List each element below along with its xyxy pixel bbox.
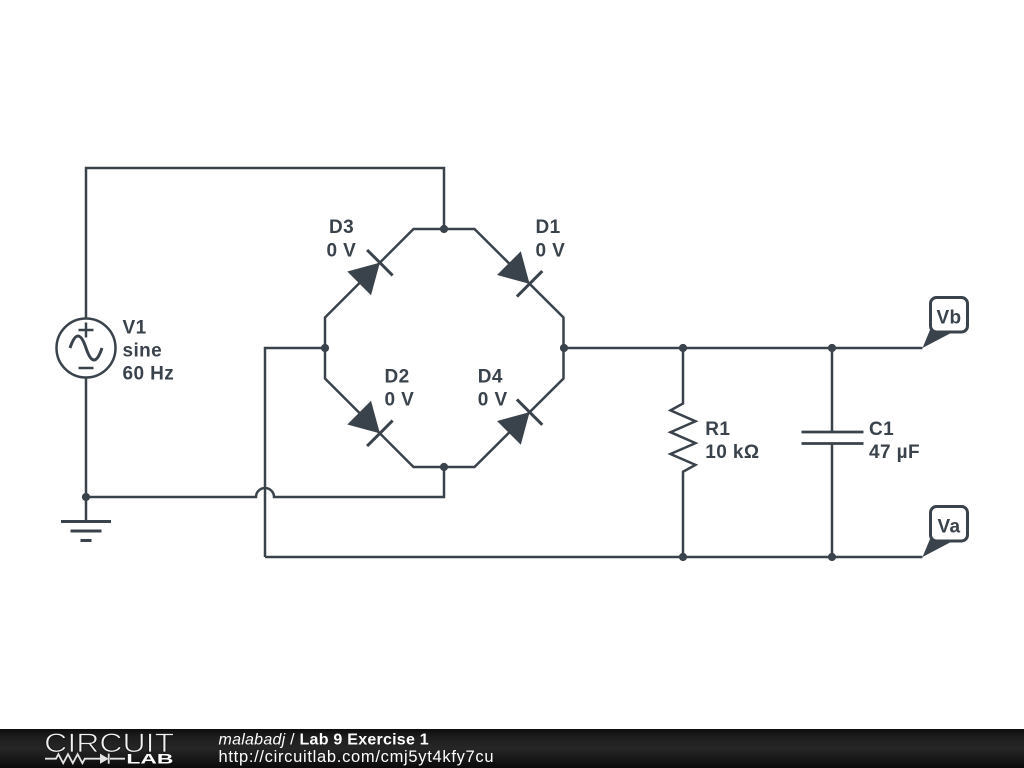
D4 label	[478, 366, 508, 410]
svg-text:0 V: 0 V	[478, 390, 508, 411]
diode D1 (top node to right node)	[444, 229, 564, 348]
node dot R1 bottom	[679, 553, 687, 561]
V1 label	[123, 318, 175, 385]
capacitor C1	[802, 348, 864, 557]
D2 label	[385, 366, 415, 410]
svg-text:0 V: 0 V	[536, 240, 566, 261]
svg-text:0 V: 0 V	[385, 390, 415, 411]
svg-text:0 V: 0 V	[327, 240, 357, 261]
node dot bridge bottom	[440, 463, 448, 471]
voltage source V1	[57, 319, 116, 378]
svg-text:D4: D4	[478, 366, 503, 387]
svg-text:R1: R1	[705, 419, 730, 440]
node dot bridge right	[560, 344, 568, 352]
svg-text:C1: C1	[869, 419, 894, 440]
ground	[61, 522, 111, 541]
svg-text:D1: D1	[536, 217, 561, 238]
svg-text:47 µF: 47 µF	[869, 442, 920, 463]
svg-text:60 Hz: 60 Hz	[123, 363, 175, 384]
CircuitLab logo	[44, 728, 174, 767]
svg-text:Vb: Vb	[936, 307, 961, 328]
D1 label	[536, 217, 566, 261]
svg-text:LAB: LAB	[126, 752, 173, 767]
node dot C1 bottom	[828, 553, 836, 561]
svg-text:D3: D3	[329, 217, 354, 238]
node dot C1 top	[828, 344, 836, 352]
svg-text:10 kΩ: 10 kΩ	[705, 442, 759, 463]
D3 label	[327, 217, 357, 261]
diode D2 (left node to bottom node)	[325, 348, 444, 467]
svg-text:Va: Va	[938, 516, 961, 537]
node dot R1 top	[679, 344, 687, 352]
diode D3 (left node to top node)	[325, 229, 444, 348]
bottom output rail to Va flag	[265, 556, 923, 559]
svg-text:D2: D2	[385, 366, 410, 387]
wire bridge left node to left rail down to bottom rail	[265, 348, 325, 557]
junction at V1 ground node	[82, 493, 90, 501]
wire from V1 bottom to ground	[85, 378, 88, 522]
flag Va	[923, 507, 968, 558]
svg-text:V1: V1	[123, 318, 147, 339]
svg-text:malabadj / Lab 9 Exercise 1: malabadj / Lab 9 Exercise 1	[219, 732, 429, 749]
svg-text:http://circuitlab.com/cmj5yt4k: http://circuitlab.com/cmj5yt4kfy7cu	[219, 748, 495, 766]
node dot bridge top	[440, 225, 448, 233]
wire from V1 top up and across to bridge top node	[86, 168, 444, 319]
diode D4 (bottom node to right node)	[444, 348, 564, 467]
flag Vb	[923, 298, 968, 349]
ground wire to bridge bottom with hop over vertical wire	[86, 467, 444, 497]
footer bar	[0, 729, 1024, 768]
R1 label	[705, 419, 759, 463]
svg-text:sine: sine	[123, 341, 163, 362]
footer title text	[219, 732, 495, 767]
node dot bridge left	[321, 344, 329, 352]
resistor R1	[671, 348, 696, 557]
wire bridge right node to Vb flag	[564, 347, 923, 350]
C1 label	[869, 419, 920, 463]
